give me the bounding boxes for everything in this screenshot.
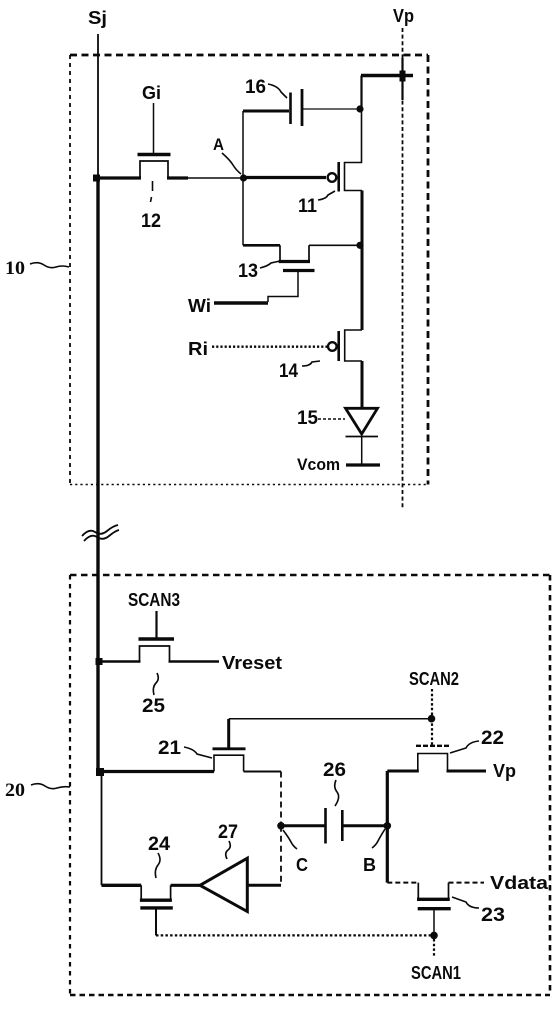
transistor T11 gate bubble bbox=[328, 173, 337, 182]
svg-text:Sj: Sj bbox=[88, 8, 107, 28]
node A junction bbox=[240, 174, 247, 181]
svg-text:A: A bbox=[213, 135, 224, 154]
leader for label 27 bbox=[226, 841, 231, 859]
svg-text:Ri: Ri bbox=[188, 339, 208, 359]
leader for label A bbox=[222, 153, 241, 174]
svg-text:Vreset: Vreset bbox=[222, 653, 282, 673]
svg-text:15: 15 bbox=[297, 408, 318, 429]
svg-text:Vcom: Vcom bbox=[297, 455, 340, 474]
leader for label 25 bbox=[153, 673, 158, 695]
wire Gi lead bbox=[153, 103, 155, 153]
transistor T24 gate lead bbox=[155, 908, 157, 936]
wire T14 to diode bbox=[361, 361, 364, 408]
node 20 junction on Sj bbox=[96, 768, 104, 776]
node T13/T11 junction bbox=[356, 242, 363, 249]
block 10 dashed box left edge bbox=[69, 55, 71, 485]
transistor T13 channel bump (down) bbox=[280, 245, 309, 261]
transistor T22 channel bump bbox=[418, 754, 448, 772]
svg-text:13: 13 bbox=[238, 261, 258, 282]
capacitor C26 wire left bbox=[283, 824, 325, 827]
node SCAN1 junction bbox=[430, 932, 438, 940]
svg-text:C: C bbox=[296, 855, 308, 875]
wire node A column bbox=[242, 111, 244, 245]
leader for label 16 bbox=[268, 84, 287, 98]
node Vp junction bbox=[400, 71, 406, 82]
svg-text:Wi: Wi bbox=[188, 296, 211, 316]
svg-text:21: 21 bbox=[158, 738, 181, 759]
transistor T24 channel plateau bbox=[140, 899, 172, 902]
transistor T22 gate bar bbox=[416, 745, 449, 747]
capacitor C16 plates bbox=[289, 93, 292, 125]
leader for label 23 bbox=[452, 897, 479, 908]
transistor T22 channel left bbox=[387, 770, 419, 773]
svg-text:27: 27 bbox=[218, 822, 238, 843]
node Sj/T12 junction bbox=[93, 175, 100, 182]
transistor T22 channel right bbox=[447, 770, 487, 773]
wire Vcom rail bbox=[346, 463, 380, 466]
transistor T24 channel left bbox=[102, 884, 142, 887]
svg-text:22: 22 bbox=[481, 728, 504, 749]
svg-text:26: 26 bbox=[323, 760, 346, 781]
svg-text:SCAN2: SCAN2 bbox=[409, 669, 459, 689]
svg-text:SCAN1: SCAN1 bbox=[411, 963, 461, 983]
diode D15 triangle bbox=[346, 408, 378, 434]
wire SCAN1 rail (dotted) bbox=[156, 934, 434, 936]
transistor T14 gate bubble bbox=[328, 342, 337, 351]
capacitor C26 right plate bbox=[341, 810, 344, 841]
leader for label 14 bbox=[302, 361, 320, 366]
leader for label 22 bbox=[450, 741, 479, 753]
wire Sj column lower (thick) bbox=[96, 178, 99, 771]
wire diode to Vcom bbox=[361, 437, 363, 466]
transistor T23 gate bar bbox=[418, 907, 451, 910]
wire SCAN2 lead lower (dotted) bbox=[431, 719, 433, 746]
wire top rail to Vp bbox=[361, 74, 413, 77]
wire column B upper bbox=[386, 771, 389, 826]
node Sj/T25 junction bbox=[96, 658, 103, 665]
transistor T25 gate bar bbox=[139, 637, 175, 640]
wire Ri lead (dotted) bbox=[212, 346, 327, 348]
node SCAN2 junction bbox=[428, 715, 436, 723]
block 20 dashed box top edge bbox=[70, 574, 550, 577]
wire column C upper (dashed) bbox=[280, 772, 282, 826]
block 10 dashed box bottom edge bbox=[70, 484, 428, 486]
leader for label 12 bbox=[151, 181, 153, 202]
wire T11 drain down bbox=[361, 191, 364, 248]
leader for label 10 bbox=[30, 263, 69, 268]
svg-text:SCAN3: SCAN3 bbox=[128, 590, 180, 610]
block 20 dashed box left edge bbox=[69, 575, 71, 995]
svg-text:B: B bbox=[363, 855, 376, 875]
block 20 dashed box right edge bbox=[549, 575, 552, 995]
block 10 dashed box right edge bbox=[427, 55, 430, 485]
transistor T14 channel bbox=[345, 330, 362, 361]
transistor T23 channel right bbox=[449, 882, 485, 884]
transistor T13 channel left bbox=[243, 244, 280, 247]
wire column C lower (dashed) bbox=[280, 826, 282, 886]
svg-text:23: 23 bbox=[481, 905, 505, 926]
transistor T23 channel plateau bbox=[417, 898, 450, 901]
wire SCAN2 lead upper (dotted) bbox=[431, 689, 433, 719]
wire SCAN1 stub (dotted) bbox=[433, 939, 435, 956]
transistor T25 channel right to Vreset bbox=[169, 660, 220, 663]
leader for label 15 bbox=[318, 418, 345, 420]
transistor T11 channel bbox=[345, 109, 363, 191]
transistor T24 gate bar bbox=[140, 906, 173, 909]
transistor T13 channel right bbox=[309, 244, 358, 246]
capacitor C26 left plate bbox=[324, 808, 327, 844]
transistor T25 channel left bbox=[99, 660, 141, 663]
svg-text:Vdata: Vdata bbox=[490, 873, 549, 893]
transistor T23 channel left bbox=[387, 882, 418, 884]
transistor T21 channel bump bbox=[214, 755, 244, 771]
block 20 dashed box bottom edge bbox=[70, 994, 550, 996]
transistor T24 channel right bbox=[171, 884, 200, 887]
svg-text:10: 10 bbox=[5, 258, 25, 279]
svg-text:14: 14 bbox=[279, 361, 298, 382]
capacitor C16 wire left bbox=[243, 110, 289, 113]
capacitor C26 wire right bbox=[344, 824, 387, 827]
amplifier A27 triangle bbox=[200, 858, 247, 911]
wire Sj column upper (thin) bbox=[97, 34, 99, 178]
transistor T12 channel thick segments bbox=[96, 176, 141, 179]
wire row21 right bbox=[244, 771, 281, 773]
transistor T13 channel plateau bbox=[279, 260, 310, 263]
transistor T11 gate bar bbox=[337, 162, 340, 192]
transistor T21 gate lead bbox=[227, 719, 230, 749]
transistor T12 channel bump bbox=[140, 161, 168, 178]
wire row21 left bbox=[100, 770, 214, 773]
wire SCAN2 rail bbox=[229, 718, 432, 720]
transistor T14 gate bar bbox=[337, 331, 340, 361]
transistor T23 channel bump (down) bbox=[418, 883, 448, 900]
block 10 dashed box top edge bbox=[70, 54, 428, 57]
leader for label 20 bbox=[31, 784, 70, 789]
transistor T13 gate lead bbox=[268, 271, 298, 303]
svg-text:16: 16 bbox=[245, 77, 266, 98]
leader for label C bbox=[283, 830, 297, 849]
transistor T12 gate bar bbox=[138, 153, 171, 156]
svg-text:25: 25 bbox=[142, 696, 165, 717]
wire riser cap16 node to top rail bbox=[360, 76, 362, 110]
leader for label 26 bbox=[335, 780, 339, 806]
node between C16 and T11 bbox=[356, 105, 363, 112]
wire amp input bbox=[247, 884, 281, 887]
leader for label 24 bbox=[155, 853, 160, 878]
wire Vp column bbox=[402, 28, 404, 509]
leader for label 13 bbox=[260, 261, 280, 268]
svg-text:Vp: Vp bbox=[493, 761, 516, 781]
transistor T14 source column bbox=[361, 247, 364, 330]
break symbol on Sj line bbox=[82, 525, 118, 536]
wire column B lower bbox=[386, 826, 389, 883]
wire Wi lead bbox=[214, 301, 268, 304]
diode D15 bar bbox=[346, 436, 379, 438]
svg-text:24: 24 bbox=[148, 834, 170, 855]
wire SCAN3 lead bbox=[155, 611, 157, 638]
capacitor C16 wire right bbox=[303, 108, 357, 110]
transistor T23 gate lead bbox=[433, 909, 435, 936]
node B bbox=[384, 822, 392, 830]
wire Vp column solid segment at junction bbox=[401, 58, 403, 100]
wire gate A to T11 bbox=[245, 176, 326, 179]
leader for label 11 bbox=[318, 191, 335, 200]
leader for label B bbox=[372, 829, 385, 848]
wire T12 to node A bbox=[188, 177, 240, 179]
node C bbox=[277, 822, 285, 830]
svg-text:11: 11 bbox=[298, 196, 317, 217]
svg-text:20: 20 bbox=[5, 780, 25, 801]
leader for label 21 bbox=[184, 747, 212, 758]
svg-text:Vp: Vp bbox=[393, 6, 414, 26]
svg-text:Gi: Gi bbox=[142, 83, 161, 103]
transistor T21 gate bar bbox=[213, 747, 246, 750]
wire column down from node 20 bbox=[101, 772, 103, 886]
transistor T25 channel bump bbox=[140, 646, 170, 662]
svg-text:12: 12 bbox=[141, 211, 161, 232]
transistor T24 channel bump (down) bbox=[141, 885, 170, 900]
transistor T13 gate bar bbox=[283, 269, 315, 272]
